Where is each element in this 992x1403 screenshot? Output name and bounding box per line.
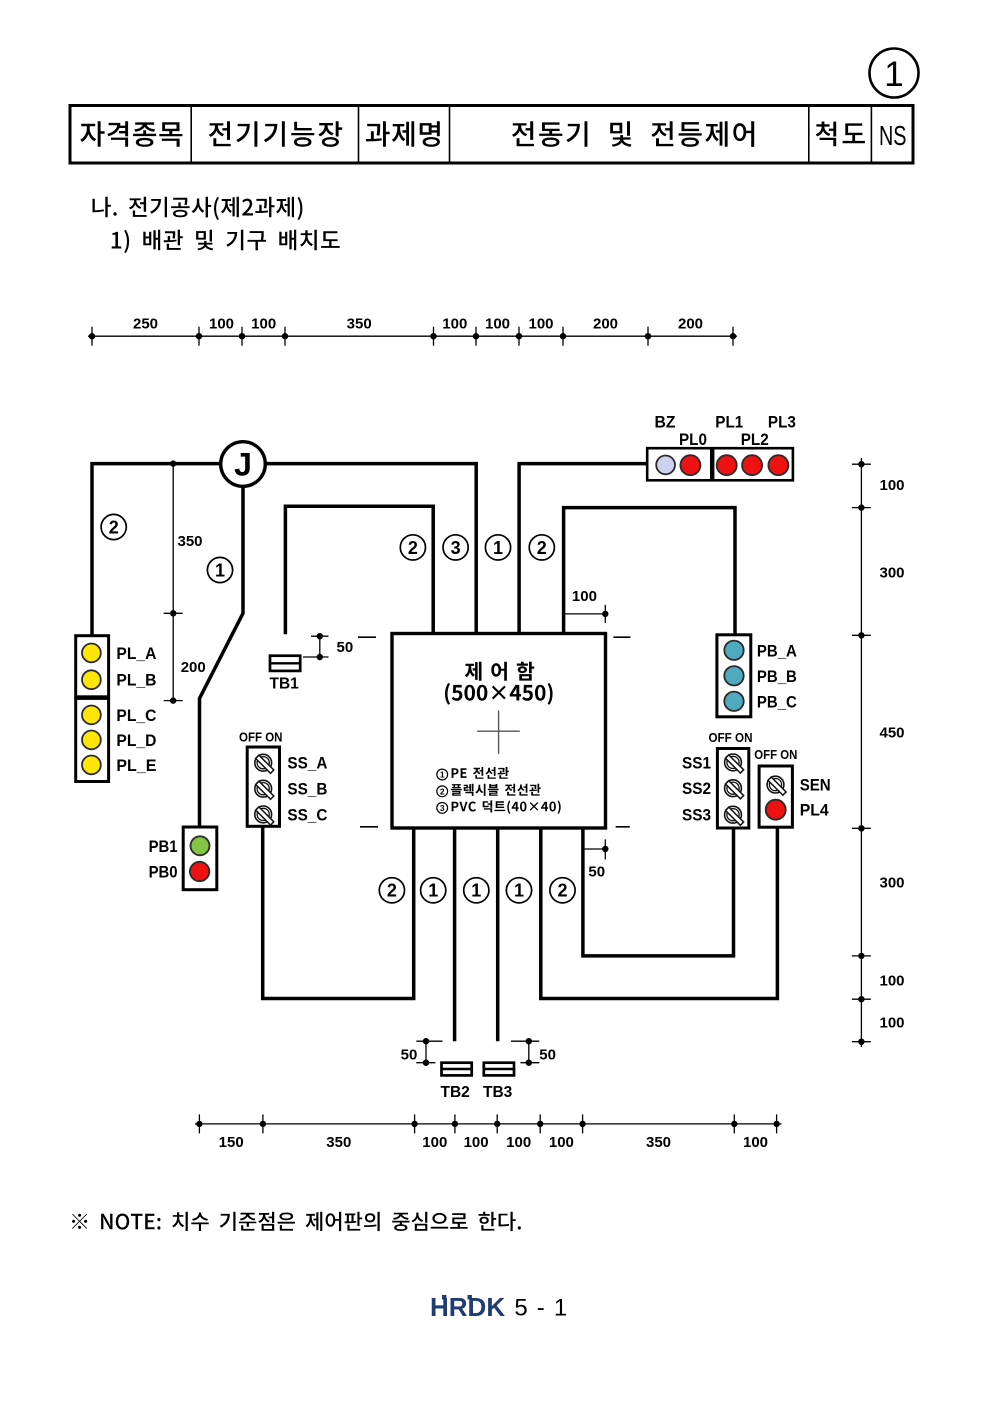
lamp PL_B <box>82 670 101 689</box>
control box title 제 어 함 <box>465 662 534 681</box>
title block table <box>70 106 913 164</box>
extension dash left of box bottom <box>360 826 378 828</box>
wire control box bottom to SS1-SS3 box <box>583 828 734 956</box>
dimension 100 right U <box>564 605 609 623</box>
lamp PL3 <box>768 455 788 475</box>
wire type label 1 below box center <box>464 878 489 903</box>
svg-text:1: 1 <box>428 881 438 901</box>
svg-text:PB_C: PB_C <box>757 692 797 711</box>
title cell 과제명 <box>366 121 440 147</box>
control box center cross <box>477 711 520 754</box>
title cell 척도 <box>816 122 865 147</box>
svg-text:PB_B: PB_B <box>757 667 797 686</box>
wire type label 1 J stem <box>207 557 232 582</box>
svg-text:BZ: BZ <box>655 413 676 432</box>
svg-text:PL3: PL3 <box>768 413 796 432</box>
svg-text:100: 100 <box>549 1134 574 1151</box>
svg-text:100: 100 <box>743 1134 768 1151</box>
lamp PL_D <box>82 731 101 750</box>
svg-text:PL_E: PL_E <box>116 756 156 775</box>
svg-text:100: 100 <box>464 1134 489 1151</box>
top dimension labels <box>133 316 703 333</box>
svg-text:NS: NS <box>879 120 907 151</box>
sheet number circle 1 <box>870 49 919 98</box>
svg-text:100: 100 <box>572 588 597 605</box>
svg-text:300: 300 <box>880 564 905 581</box>
pushbutton PB_C <box>724 692 743 711</box>
svg-text:1: 1 <box>884 55 903 94</box>
footer page number 5 - 1 <box>514 1294 568 1321</box>
svg-text:PL2: PL2 <box>741 430 769 449</box>
svg-text:50: 50 <box>539 1046 556 1063</box>
svg-text:50: 50 <box>588 864 605 881</box>
note ※ NOTE <box>72 1212 521 1231</box>
svg-text:100: 100 <box>422 1134 447 1151</box>
svg-text:2: 2 <box>557 881 567 901</box>
wire control box bottom to TB2 <box>453 828 457 1041</box>
dimension 50 at TB1 <box>303 633 329 660</box>
pushbutton PB0 red <box>190 862 209 881</box>
svg-text:SS3: SS3 <box>682 806 711 825</box>
legend item 3 PVC 덕트(40×40) <box>437 800 561 814</box>
svg-text:150: 150 <box>219 1134 244 1151</box>
svg-text:350: 350 <box>178 533 203 550</box>
title cell NS <box>879 120 907 151</box>
selector SS1 <box>725 754 744 773</box>
svg-text:PB_A: PB_A <box>757 641 797 660</box>
selector SS3 <box>725 806 744 825</box>
right dimension labels <box>880 477 905 1031</box>
wire from junction J slanting down to PB1 <box>200 464 244 827</box>
svg-text:3: 3 <box>440 803 445 813</box>
svg-text:100: 100 <box>251 316 276 333</box>
top dimension line <box>88 327 737 346</box>
lamp box PL1 PL2 PL3 <box>713 448 793 480</box>
svg-text:2: 2 <box>109 517 119 537</box>
svg-text:OFF ON: OFF ON <box>239 730 283 745</box>
sensor switch SEN <box>767 776 786 795</box>
svg-text:200: 200 <box>593 316 618 333</box>
title cell 전동기 및 전등제어 <box>512 121 754 147</box>
lamp PL_A <box>82 644 101 663</box>
svg-text:2: 2 <box>440 786 445 796</box>
sensor-lamp box SEN PL4 <box>759 766 792 827</box>
selector SS2 <box>725 780 744 799</box>
wire U-shape above TB1 into control box <box>285 506 433 634</box>
pushbutton PB_A <box>724 641 743 660</box>
svg-text:50: 50 <box>337 639 354 656</box>
extension dash right of box top <box>613 636 630 638</box>
wire type label 1 below box <box>421 878 446 903</box>
svg-text:TB3: TB3 <box>483 1084 513 1101</box>
svg-text:3: 3 <box>451 538 461 558</box>
svg-text:PL_A: PL_A <box>116 644 156 663</box>
svg-text:PL_D: PL_D <box>116 731 156 750</box>
svg-text:2: 2 <box>537 538 547 558</box>
dimension 350/200 vertical line left <box>164 460 183 703</box>
wire type label 2 right riser <box>529 535 554 560</box>
pushbutton PB1 green <box>191 836 210 855</box>
svg-text:100: 100 <box>880 972 905 989</box>
svg-text:1: 1 <box>440 770 445 780</box>
svg-text:PB0: PB0 <box>149 863 178 882</box>
svg-text:350: 350 <box>326 1134 351 1151</box>
svg-text:100: 100 <box>442 316 467 333</box>
dimension 50 at TB3 <box>511 1038 539 1066</box>
wire type label 2 below box left <box>379 878 404 903</box>
control box 제어함 (500x450) <box>392 634 606 829</box>
wire type label 2 left wire <box>101 514 126 539</box>
svg-text:350: 350 <box>347 316 372 333</box>
svg-text:350: 350 <box>646 1134 671 1151</box>
wire control box bottom right to SEN/PL4 box <box>541 827 778 998</box>
wire top-left horizontal + left drop to PL lamps <box>92 464 476 636</box>
lamp box PL_C PL_D PL_E <box>76 698 109 781</box>
svg-text:1: 1 <box>215 560 225 580</box>
svg-text:100: 100 <box>528 316 553 333</box>
svg-text:200: 200 <box>181 659 206 676</box>
selector switch box SS_A SS_B SS_C <box>247 747 279 826</box>
wire top-right horizontal to BZ box + drop into control box <box>519 464 647 634</box>
svg-text:100: 100 <box>209 316 234 333</box>
wire type label 2 TB1 riser <box>400 535 425 560</box>
terminal block TB3 <box>483 1063 514 1101</box>
pushbutton PB_B <box>724 666 743 685</box>
svg-text:200: 200 <box>678 316 703 333</box>
extension dash right of box bottom <box>616 826 630 828</box>
legend item 2 플렉시블 전선관 <box>437 784 541 797</box>
svg-text:J: J <box>234 447 252 483</box>
svg-text:SS1: SS1 <box>682 753 711 772</box>
svg-text:PL1: PL1 <box>715 413 743 432</box>
wire from SS_A box down and right into control box bottom <box>263 826 414 998</box>
wire type label 3 center riser <box>443 535 468 560</box>
junction J <box>221 442 266 487</box>
dimension 50 below box right <box>585 839 609 859</box>
svg-text:OFF ON: OFF ON <box>754 747 797 762</box>
wire type label 2 below box right <box>550 878 575 903</box>
svg-text:OFF ON: OFF ON <box>709 730 753 745</box>
bottom dimension line <box>195 1114 782 1133</box>
selector SS_C <box>255 806 274 825</box>
svg-text:2: 2 <box>408 538 418 558</box>
bottom dimension labels <box>219 1134 768 1151</box>
selector SS_A <box>255 754 274 773</box>
terminal block TB2 <box>441 1063 472 1101</box>
svg-text:SS_C: SS_C <box>287 805 327 824</box>
svg-text:2: 2 <box>387 881 397 901</box>
title cell 전기기능장 <box>209 121 342 147</box>
svg-text:50: 50 <box>401 1046 418 1063</box>
svg-text:250: 250 <box>133 316 158 333</box>
svg-text:100: 100 <box>880 1015 905 1032</box>
svg-text:5 - 1: 5 - 1 <box>514 1294 568 1321</box>
lamp PL2 <box>742 455 762 475</box>
svg-text:SEN: SEN <box>800 776 831 795</box>
svg-text:PB1: PB1 <box>149 837 178 856</box>
svg-text:300: 300 <box>880 875 905 892</box>
svg-text:1: 1 <box>471 881 481 901</box>
lamp PL_E <box>82 756 101 775</box>
svg-text:450: 450 <box>880 724 905 741</box>
buzzer-lamp box BZ PL0 <box>647 448 711 480</box>
svg-text:PL_C: PL_C <box>116 706 156 725</box>
lamp PL1 <box>717 455 737 475</box>
wire type label 1 BZ riser <box>485 535 510 560</box>
svg-text:TB1: TB1 <box>270 676 300 693</box>
pushbutton box PB_A PB_B PB_C <box>717 635 751 717</box>
subtitle 나. 전기공사(제2과제) <box>93 197 303 220</box>
svg-text:SS2: SS2 <box>682 779 711 798</box>
subtitle 1) 배관 및 기구 배치도 <box>112 230 340 253</box>
footer HRDK logo <box>430 1292 505 1322</box>
svg-text:PL_B: PL_B <box>116 671 156 690</box>
svg-text:100: 100 <box>506 1134 531 1151</box>
selector switch box SS1 SS2 SS3 <box>717 749 748 829</box>
svg-text:100: 100 <box>485 316 510 333</box>
wire vertical type-3 into control box top <box>474 462 478 634</box>
lamp box PL_A PL_B <box>76 636 109 697</box>
wire U-shape right side to PB_A box <box>564 508 735 636</box>
right dimension line <box>852 458 871 1047</box>
svg-text:100: 100 <box>880 477 905 494</box>
pushbutton box PB1 PB0 <box>183 827 217 890</box>
control box size (500×450) <box>445 683 553 705</box>
svg-text:PL0: PL0 <box>679 430 707 449</box>
title cell 자격종목 <box>80 121 182 147</box>
buzzer BZ <box>656 456 675 475</box>
svg-text:TB2: TB2 <box>441 1084 470 1101</box>
svg-text:PL4: PL4 <box>800 801 829 820</box>
lamp PL4 <box>766 800 786 820</box>
lamp PL_C <box>82 706 101 725</box>
svg-text:SS_B: SS_B <box>287 780 327 799</box>
wire type label 1 below box right-center <box>506 878 531 903</box>
selector SS_B <box>255 780 274 799</box>
svg-text:SS_A: SS_A <box>287 754 327 773</box>
wire control box bottom to TB3 <box>496 828 500 1041</box>
svg-text:1: 1 <box>514 881 524 901</box>
svg-text:1: 1 <box>493 538 503 558</box>
terminal block TB1 <box>270 656 301 693</box>
lamp PL0 <box>680 455 700 475</box>
dimension 50 at TB2 <box>416 1038 442 1066</box>
extension dash left of box top <box>358 636 376 638</box>
legend item 1 PE 전선관 <box>437 767 509 780</box>
